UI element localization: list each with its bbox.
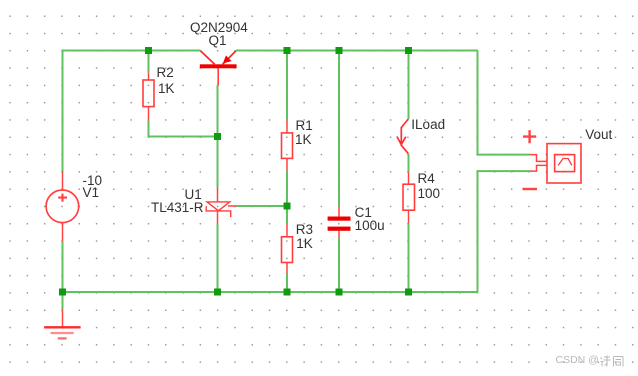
ground symbol [44,327,80,338]
wire R4 bottom lead red [408,210,410,223]
label Q2N2904 [190,21,248,35]
wire C1 bottom green [338,238,340,292]
resistor R2 [143,80,154,107]
plus terminal mark [523,130,536,143]
wire V1 bottom lead [62,223,64,241]
junction node TL431 ref / R1-R3 [284,203,291,210]
wire ground stem green [62,292,64,309]
wire C1 top lead red [338,206,340,216]
shunt regulator U1 TL431-R [206,202,236,217]
wire ground stem red [62,309,64,327]
label C1 value 100u [355,219,385,233]
wire top rail right segment [236,50,478,52]
capacitor C1 [328,217,351,231]
wire base column green (Q1 base to TL431) [217,86,219,188]
minus terminal mark [523,188,538,190]
label C1 [355,206,372,220]
wire R3 bottom lead red [286,263,288,275]
wire top rail left segment [63,51,201,173]
wire probe lower pin red [529,165,547,171]
resistor R3 [282,237,293,263]
label R2 value 1K [158,82,175,96]
transistor Q1 (Q2N2904 PNP) [200,51,237,86]
wire V1 top lead [62,172,64,191]
wire bottom ground rail [62,291,479,293]
wire right column top (to probe +) [478,51,530,155]
watermark CSDN [556,355,599,366]
label U1 value TL431-R [151,201,204,215]
label V1 value -10 [83,174,103,188]
wire C1 bottom lead red [338,231,340,238]
label Q1 [209,34,227,48]
wire R4 mid green [408,154,410,172]
wire R2 top lead green [148,51,150,73]
wire R4 top green [408,51,410,120]
wire R1 bottom lead red [286,158,288,170]
resistor R1 [282,133,293,159]
label Vout [585,128,612,142]
label R1 value 1K [295,133,312,147]
wire TL431 bottom lead red [217,211,219,224]
wire right column bottom (probe - to ground rail) [478,171,530,292]
wire R3 top green [286,206,288,224]
wire TL431 top lead red [217,188,219,203]
wire R2 bottom lead red [148,107,150,121]
junction node R1 top [284,47,291,54]
wire C1 top green [338,51,340,207]
label V1 [83,186,100,200]
junction node Q1 base / R2 bottom [214,133,221,140]
label R4 [418,172,435,186]
junction node TL431 bottom [214,289,221,296]
wire R2 top lead red [148,72,150,80]
watermark glyphs [599,354,625,368]
wire R4 bottom green [408,223,410,292]
voltage source V1 [46,190,79,223]
wire R3 bottom green [286,274,288,292]
wire R1 top green [286,51,288,121]
wire R1 bottom green to node [286,171,288,206]
wire R2 bottom to base junction [149,120,218,136]
label R1 [296,119,313,133]
label R4 value 100 [418,187,441,201]
junction node ground left [59,289,66,296]
wire TL431 ref to R1/R3 node [237,205,288,207]
label R3 [296,223,313,237]
junction node R2 top [145,47,152,54]
label U1 [185,188,202,202]
wire probe upper pin red [529,155,547,162]
wire R1 top lead red [286,120,288,133]
wire left rail bottom (V1 to ground rail) [62,241,64,293]
wire base column bottom green [217,223,219,292]
junction node R4 bottom [405,289,412,296]
wire R3 top lead red [286,224,288,238]
voltage probe Vout (scope symbol) [547,144,581,183]
resistor R4 [403,184,415,210]
junction node R4 top [405,47,412,54]
current probe ILoad arrow [397,119,408,154]
label ILoad [411,118,445,132]
junction node R3 bottom [284,289,291,296]
junction node C1 top [336,47,343,54]
wire R4 top lead red [408,172,410,185]
junction node C1 bottom [336,289,343,296]
label R2 [157,66,174,80]
label R3 value 1K [296,237,313,251]
